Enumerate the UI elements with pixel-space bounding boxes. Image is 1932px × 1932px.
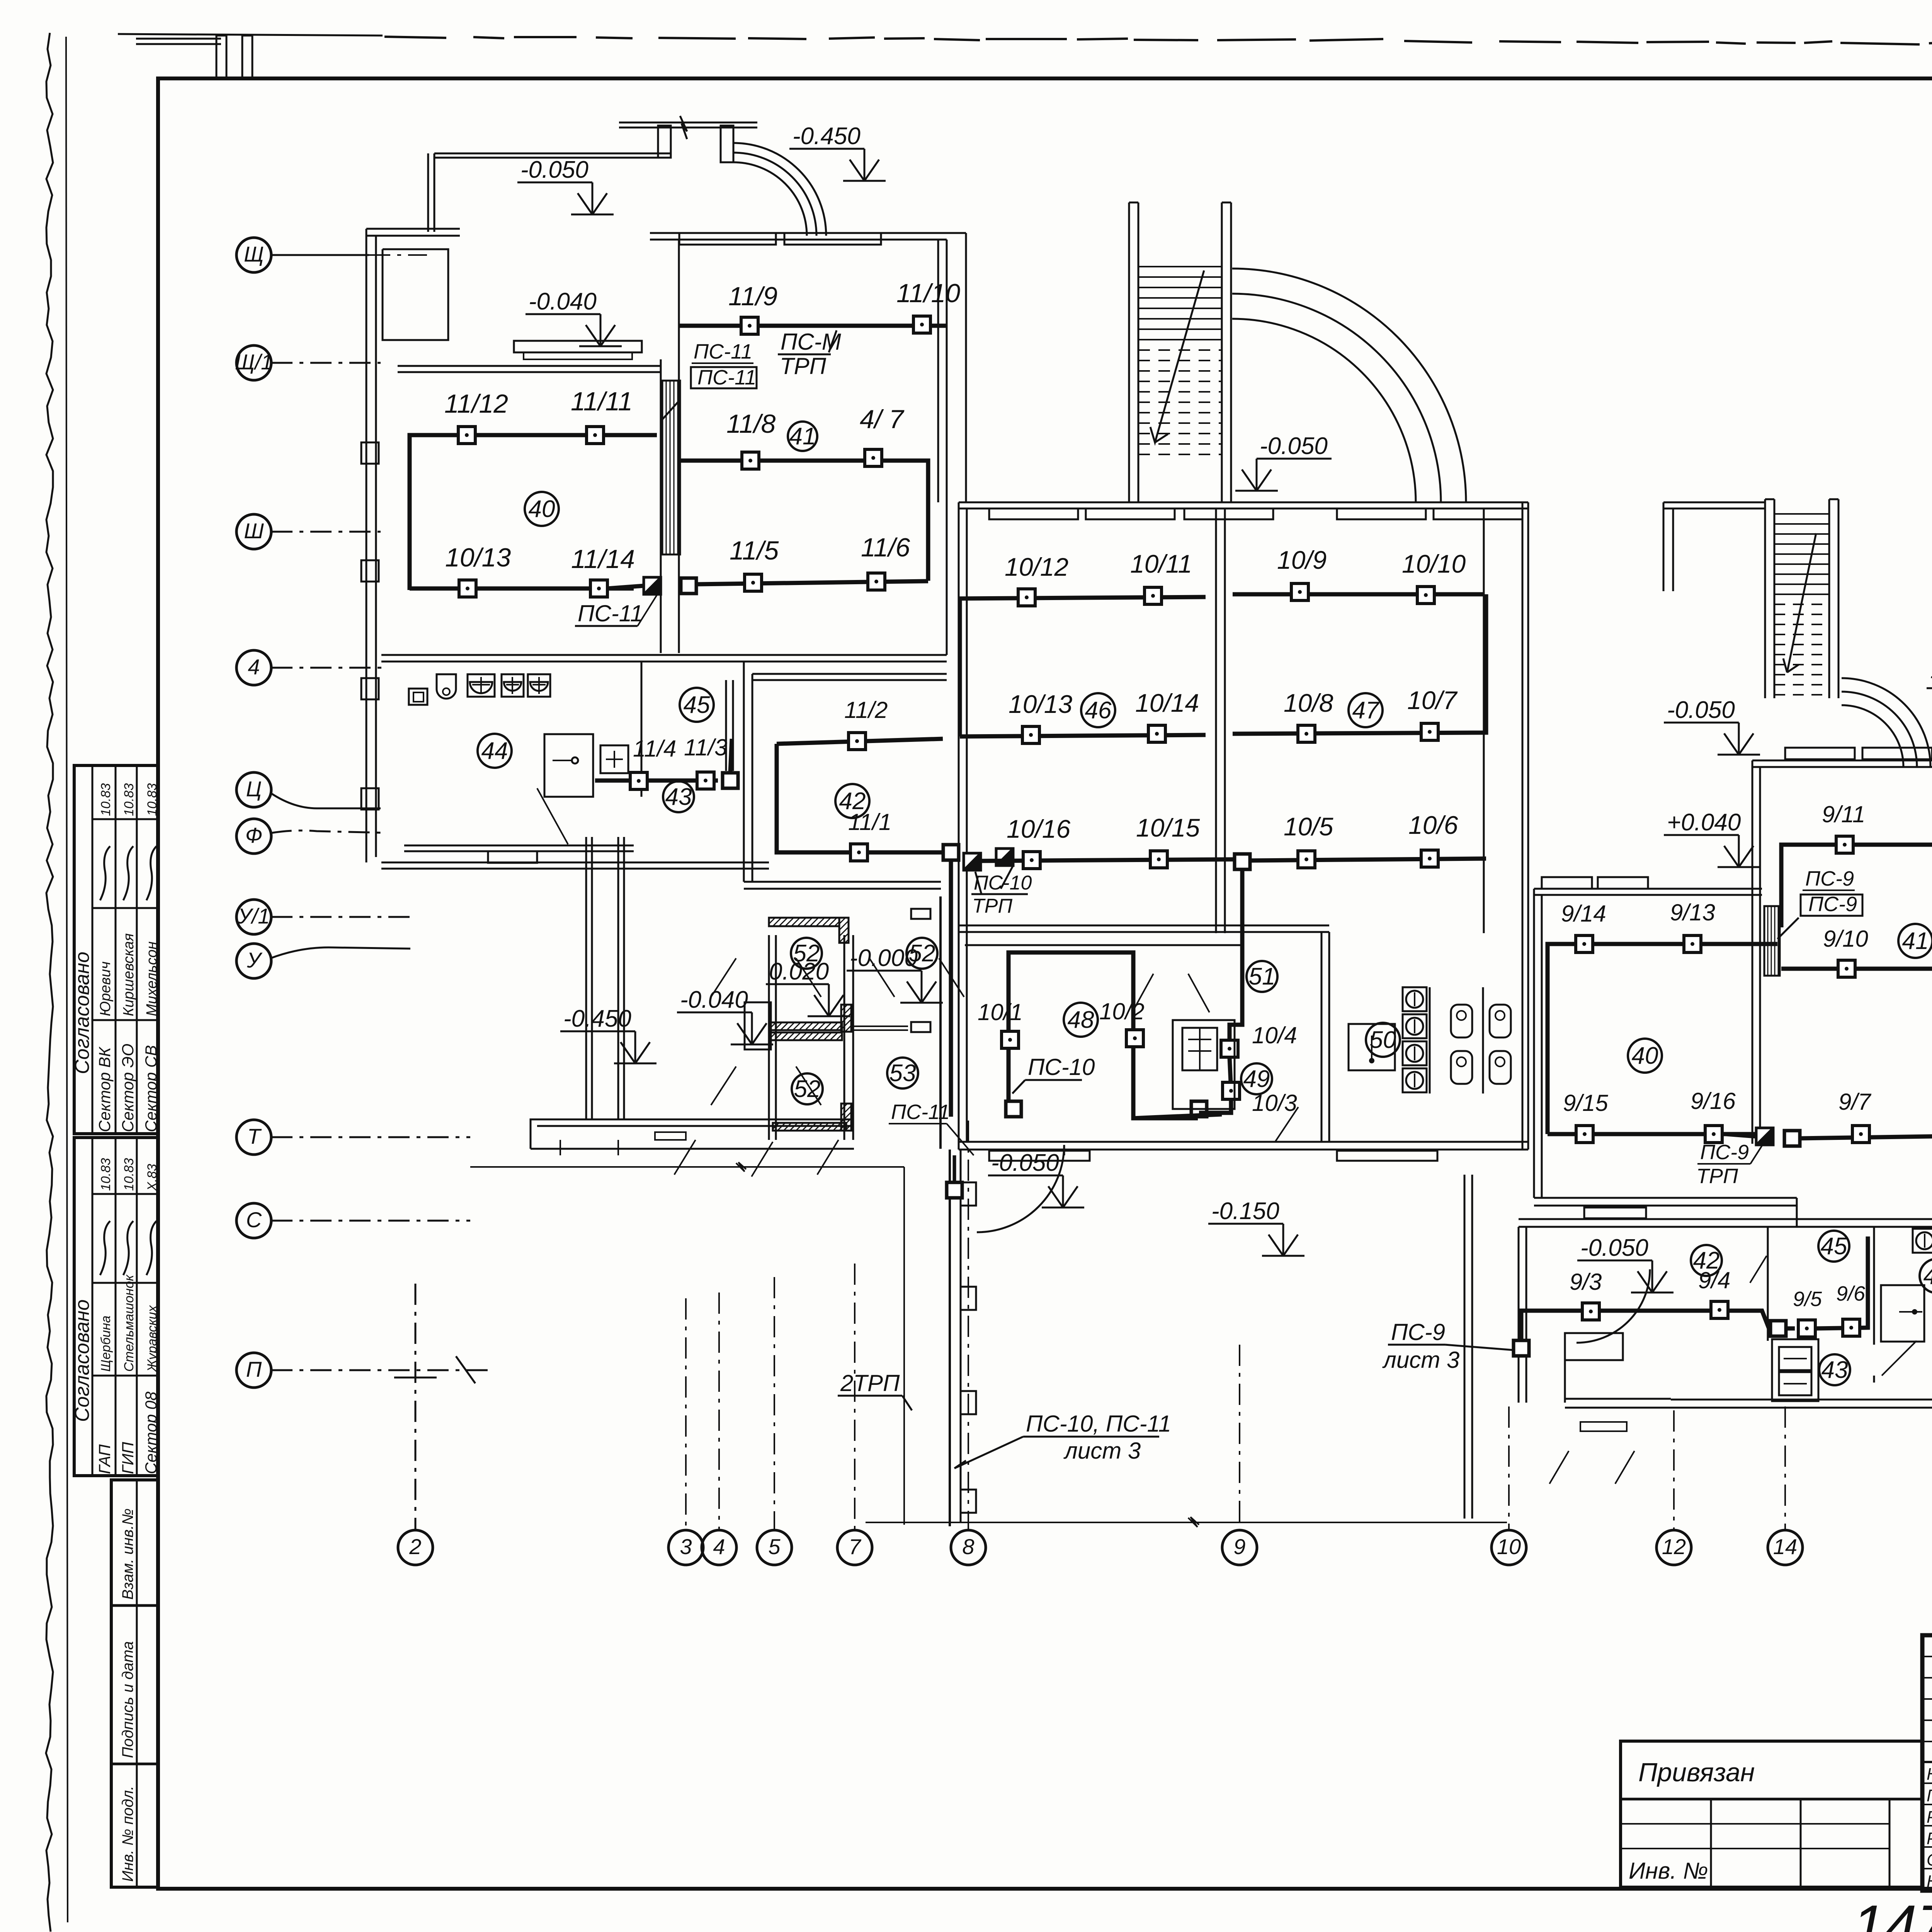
svg-text:7: 7 bbox=[849, 1534, 861, 1559]
svg-text:3: 3 bbox=[680, 1534, 692, 1559]
svg-text:Т: Т bbox=[247, 1124, 262, 1148]
svg-text:11/2: 11/2 bbox=[844, 697, 888, 723]
svg-text:2ТРП: 2ТРП bbox=[840, 1370, 900, 1396]
wing2 left wall bbox=[958, 502, 960, 1150]
svg-text:40: 40 bbox=[529, 496, 555, 522]
hall bottom thin line bbox=[866, 1522, 1507, 1523]
corridor51 + 49 wiring bbox=[1230, 869, 1242, 1049]
svg-text:10/7: 10/7 bbox=[1407, 686, 1458, 714]
svg-text:2: 2 bbox=[409, 1534, 421, 1559]
svg-text:11/1: 11/1 bbox=[848, 809, 891, 835]
wing2 outer top wall bbox=[959, 502, 1528, 503]
svg-text:ПС-9: ПС-9 bbox=[1805, 867, 1854, 890]
room49 cupboard bbox=[1173, 1020, 1235, 1109]
svg-text:53: 53 bbox=[889, 1060, 916, 1087]
svg-text:ТРП: ТРП bbox=[1696, 1165, 1738, 1188]
svg-text:Инв. №: Инв. № bbox=[1629, 1858, 1708, 1884]
corridor walls down bbox=[585, 837, 587, 1119]
svg-text:9/11: 9/11 bbox=[1822, 801, 1865, 827]
svg-text:44: 44 bbox=[481, 738, 508, 764]
wing2 rooms bottom wall bbox=[959, 925, 1329, 927]
svg-text:ГАП: ГАП bbox=[95, 1444, 114, 1474]
wingR entry steps bottom-left bbox=[1565, 1333, 1623, 1360]
svg-text:ПС-10: ПС-10 bbox=[1028, 1054, 1095, 1080]
privyazan box bbox=[1621, 1741, 1922, 1887]
svg-text:9/14: 9/14 bbox=[1561, 901, 1606, 927]
wing1 top-left outer walls bbox=[366, 228, 460, 230]
svg-text:-0.050: -0.050 bbox=[991, 1150, 1059, 1176]
title block bbox=[1922, 1635, 1932, 1891]
svg-text:Щ: Щ bbox=[244, 242, 264, 266]
svg-text:Нач. отд.: Нач. отд. bbox=[1927, 1765, 1932, 1784]
wiring wing2 row2 bbox=[958, 599, 962, 736]
torn paper left edge bbox=[46, 33, 53, 1932]
door arcs wing2 south bbox=[977, 1145, 1064, 1232]
left stamp table 2 bbox=[74, 1138, 158, 1476]
svg-text:9/5: 9/5 bbox=[1793, 1287, 1822, 1311]
svg-text:45: 45 bbox=[684, 692, 710, 718]
wing1 entrance arcs bbox=[733, 143, 826, 236]
svg-text:10.83: 10.83 bbox=[122, 783, 136, 816]
wiring room48 bbox=[1009, 952, 1198, 1118]
svg-text:11/11: 11/11 bbox=[571, 387, 633, 416]
svg-text:Гл.сп.отд.: Гл.сп.отд. bbox=[1927, 1786, 1932, 1805]
svg-text:Михельсон: Михельсон bbox=[144, 941, 160, 1016]
svg-text:10/11: 10/11 bbox=[1130, 549, 1192, 578]
svg-text:10/16: 10/16 bbox=[1007, 815, 1070, 843]
svg-text:ПС-9: ПС-9 bbox=[1808, 893, 1857, 916]
svg-text:Сектор ЭО: Сектор ЭО bbox=[119, 1044, 137, 1132]
hall left wall bbox=[949, 1150, 951, 1526]
room40 top wall + sills bbox=[398, 365, 661, 367]
trp near 42 bbox=[996, 849, 1013, 866]
wiring wing2 row3 bbox=[981, 859, 1234, 861]
svg-text:11/4: 11/4 bbox=[633, 736, 676, 762]
svg-text:ПС-11: ПС-11 bbox=[694, 340, 752, 363]
wing1 canopy roof bbox=[434, 153, 671, 155]
svg-text:10/6: 10/6 bbox=[1408, 811, 1458, 839]
svg-text:10: 10 bbox=[1497, 1534, 1521, 1559]
svg-text:-0.450: -0.450 bbox=[563, 1005, 631, 1032]
svg-text:Согласовано: Согласовано bbox=[71, 952, 94, 1074]
svg-text:ПС-11: ПС-11 bbox=[891, 1100, 950, 1124]
svg-text:10/12: 10/12 bbox=[1005, 553, 1068, 581]
svg-text:49: 49 bbox=[1243, 1066, 1270, 1092]
svg-text:П: П bbox=[246, 1357, 262, 1381]
svg-text:ПС-10, ПС-11: ПС-10, ПС-11 bbox=[1026, 1411, 1171, 1437]
svg-text:-0.040: -0.040 bbox=[529, 288, 597, 315]
wingR room40 walls bbox=[1534, 888, 1762, 890]
svg-text:46: 46 bbox=[1085, 697, 1112, 724]
svg-text:10/13: 10/13 bbox=[445, 543, 511, 572]
room 41 circle bbox=[788, 422, 817, 451]
room 40 circle bbox=[525, 492, 559, 526]
svg-text:-0.050: -0.050 bbox=[1580, 1235, 1648, 1261]
svg-text:14: 14 bbox=[1773, 1534, 1797, 1559]
svg-text:ПС-10: ПС-10 bbox=[974, 872, 1032, 894]
wingR wiring lower bbox=[1521, 1311, 1795, 1343]
left stamp table 1 (soglasovano) bbox=[74, 765, 158, 1134]
svg-text:10/13: 10/13 bbox=[1009, 690, 1072, 718]
wing1 toilets room44 bbox=[404, 845, 634, 847]
room43R cupboard bbox=[1772, 1339, 1818, 1401]
svg-text:ПС-9: ПС-9 bbox=[1700, 1141, 1749, 1164]
svg-text:10.83: 10.83 bbox=[122, 1158, 136, 1191]
wingR fixtures 44 bbox=[1913, 1229, 1932, 1253]
room42 walls bbox=[743, 662, 745, 882]
svg-text:48: 48 bbox=[1068, 1007, 1094, 1033]
svg-text:40: 40 bbox=[1632, 1043, 1658, 1069]
svg-text:-0.450: -0.450 bbox=[1930, 662, 1932, 689]
svg-text:Взам. инв.№: Взам. инв.№ bbox=[119, 1509, 136, 1600]
svg-text:Согласовано: Согласовано bbox=[71, 1299, 94, 1422]
wiring 43/42 bbox=[595, 779, 718, 783]
room50 walls + fixtures bbox=[1321, 932, 1323, 1142]
svg-text:-0.050: -0.050 bbox=[520, 156, 588, 183]
room 50 sink bbox=[1349, 1024, 1395, 1070]
svg-text:У/1: У/1 bbox=[238, 904, 270, 928]
svg-text:43: 43 bbox=[665, 784, 692, 810]
svg-text:Киршевская: Киршевская bbox=[121, 933, 137, 1016]
svg-text:Привязан: Привязан bbox=[1638, 1758, 1755, 1787]
left stamp column 3 (inv no) bbox=[111, 1480, 158, 1887]
svg-text:ТРП: ТРП bbox=[780, 353, 827, 379]
room48 walls bbox=[965, 944, 1242, 946]
svg-text:10/14: 10/14 bbox=[1135, 689, 1199, 717]
svg-text:41: 41 bbox=[789, 423, 816, 450]
svg-text:Рук.сект: Рук.сект bbox=[1927, 1808, 1932, 1827]
svg-text:10/1: 10/1 bbox=[978, 999, 1023, 1025]
wiring room40 bbox=[410, 435, 657, 590]
svg-text:10/15: 10/15 bbox=[1136, 813, 1200, 842]
svg-text:9: 9 bbox=[1233, 1534, 1245, 1559]
stair1 arcs bbox=[1232, 269, 1466, 502]
svg-text:1478- 04: 1478- 04 bbox=[1852, 1893, 1932, 1932]
svg-text:11/14: 11/14 bbox=[571, 544, 635, 574]
svg-text:ГИП: ГИП bbox=[119, 1442, 137, 1474]
wingR bottom outer wall bbox=[1671, 1399, 1932, 1401]
room40/41 bottom wall bbox=[381, 654, 947, 656]
svg-text:10.83: 10.83 bbox=[99, 1158, 113, 1191]
svg-text:9/10: 9/10 bbox=[1823, 926, 1868, 952]
stairwell1 bbox=[1128, 202, 1130, 502]
svg-text:10.83: 10.83 bbox=[99, 783, 113, 816]
svg-text:ПС-11: ПС-11 bbox=[578, 600, 643, 626]
room45 corridor walls bbox=[641, 662, 643, 797]
svg-text:10/8: 10/8 bbox=[1284, 689, 1333, 717]
svg-text:4: 4 bbox=[713, 1534, 725, 1559]
svg-text:ПС-11: ПС-11 bbox=[697, 366, 756, 389]
svg-text:-0.050: -0.050 bbox=[1260, 433, 1328, 459]
svg-text:Ст. инж.: Ст. инж. bbox=[1927, 1850, 1932, 1869]
riser marks near x2470 bbox=[953, 1155, 956, 1182]
svg-text:42: 42 bbox=[1693, 1247, 1720, 1274]
hall right wall bbox=[1464, 1175, 1466, 1519]
svg-text:Инв. № подл.: Инв. № подл. bbox=[119, 1786, 136, 1882]
axis letters left bbox=[236, 238, 271, 272]
svg-text:11/3: 11/3 bbox=[684, 735, 727, 760]
stair2 arcs bbox=[1842, 678, 1930, 767]
doors diag 48/51 bbox=[1132, 974, 1153, 1012]
svg-text:43: 43 bbox=[1821, 1357, 1848, 1383]
top-left fence bbox=[136, 38, 221, 40]
svg-text:Щербина: Щербина bbox=[99, 1316, 113, 1372]
svg-text:11/12: 11/12 bbox=[444, 389, 508, 418]
wing2 south wall bbox=[959, 1141, 1528, 1143]
wingR inner walls lower band bbox=[1767, 1227, 1769, 1341]
room41L outer walls bbox=[650, 232, 966, 234]
svg-text:Ш: Ш bbox=[244, 519, 264, 543]
svg-text:Ф: Ф bbox=[245, 823, 263, 847]
wingR wiring upper bbox=[1781, 845, 1932, 927]
svg-text:Сектор ВК: Сектор ВК bbox=[95, 1046, 114, 1132]
svg-text:Юревич: Юревич bbox=[97, 961, 114, 1016]
svg-text:41: 41 bbox=[1902, 928, 1929, 954]
band walls bottom-left bbox=[531, 1119, 854, 1149]
stair2 gallery bbox=[1663, 502, 1765, 503]
svg-text:Журавских: Журавских bbox=[145, 1305, 160, 1372]
svg-text:ТРП: ТРП bbox=[972, 895, 1012, 917]
svg-text:Щ/1: Щ/1 bbox=[235, 350, 273, 374]
wing2 mid wall 46/47 bbox=[1215, 509, 1217, 933]
svg-text:9/15: 9/15 bbox=[1563, 1090, 1608, 1116]
tambour walls bbox=[768, 935, 770, 1140]
wiring wing2 row1 bbox=[959, 597, 1206, 599]
svg-text:8: 8 bbox=[962, 1534, 974, 1559]
svg-text:4/ 7: 4/ 7 bbox=[860, 405, 905, 434]
svg-text:10.83: 10.83 bbox=[145, 783, 160, 816]
svg-text:-0.050: -0.050 bbox=[1667, 697, 1735, 723]
svg-text:Ц: Ц bbox=[246, 777, 262, 801]
wingR riser hatch bbox=[1764, 906, 1780, 976]
svg-text:С: С bbox=[246, 1207, 262, 1232]
svg-text:11/5: 11/5 bbox=[730, 536, 779, 565]
svg-text:12: 12 bbox=[1662, 1534, 1686, 1559]
stairwell2 bbox=[1764, 499, 1766, 698]
svg-text:-0.040: -0.040 bbox=[680, 986, 748, 1013]
svg-text:Сектор 08: Сектор 08 bbox=[142, 1391, 160, 1474]
svg-text:9/16: 9/16 bbox=[1690, 1088, 1736, 1114]
wingR wiring room40 bbox=[1548, 944, 1777, 1134]
svg-text:лист 3: лист 3 bbox=[1063, 1438, 1141, 1464]
svg-text:47: 47 bbox=[1352, 697, 1380, 724]
svg-text:9/7: 9/7 bbox=[1838, 1089, 1872, 1115]
svg-text:9/13: 9/13 bbox=[1670, 900, 1715, 925]
svg-text:10/5: 10/5 bbox=[1284, 812, 1333, 841]
svg-text:лист 3: лист 3 bbox=[1382, 1347, 1459, 1373]
svg-text:11/10: 11/10 bbox=[896, 279, 960, 308]
svg-text:+0.040: +0.040 bbox=[1667, 809, 1741, 836]
riser wall between 40/41 bbox=[660, 359, 662, 653]
axis numbers bottom bbox=[398, 1530, 433, 1565]
rooms circles lower right wing bbox=[1691, 1245, 1722, 1276]
door diag lower wing right bbox=[1549, 1451, 1569, 1484]
svg-text:9/6: 9/6 bbox=[1836, 1282, 1866, 1305]
svg-text:10/10: 10/10 bbox=[1402, 549, 1466, 578]
svg-text:51: 51 bbox=[1249, 963, 1276, 990]
svg-text:9/3: 9/3 bbox=[1570, 1269, 1602, 1295]
svg-text:52: 52 bbox=[794, 1076, 821, 1102]
svg-text:Н.контр: Н.контр bbox=[1927, 1872, 1932, 1891]
svg-text:11/8: 11/8 bbox=[726, 409, 776, 439]
svg-text:52: 52 bbox=[909, 940, 935, 967]
top scan edge line bbox=[118, 34, 383, 36]
svg-text:11/6: 11/6 bbox=[861, 533, 910, 562]
svg-text:52: 52 bbox=[793, 940, 820, 967]
svg-text:У: У bbox=[247, 948, 263, 972]
wingR lower rooms walls bbox=[1518, 1227, 1520, 1403]
svg-text:Х.83: Х.83 bbox=[145, 1164, 160, 1191]
svg-text:Рук. гр.: Рук. гр. bbox=[1927, 1829, 1932, 1848]
wing2 right wall bbox=[1483, 509, 1485, 933]
svg-text:Сектор СВ: Сектор СВ bbox=[142, 1045, 160, 1132]
wingR room41 outer walls bbox=[1752, 760, 1932, 762]
vestibule inner room bbox=[383, 249, 448, 340]
circles 52/53 bbox=[791, 938, 822, 969]
svg-text:45: 45 bbox=[1821, 1233, 1847, 1260]
svg-text:ПС-9: ПС-9 bbox=[1391, 1319, 1445, 1345]
svg-text:Стельмашонок: Стельмашонок bbox=[122, 1274, 136, 1372]
wingR bottom walls of rooms bbox=[1534, 1197, 1797, 1199]
svg-text:10/9: 10/9 bbox=[1277, 546, 1327, 574]
wing1 left wall pilasters bbox=[361, 442, 379, 464]
svg-text:4: 4 bbox=[248, 655, 260, 679]
svg-text:-0.150: -0.150 bbox=[1211, 1198, 1279, 1225]
svg-text:-0.450: -0.450 bbox=[793, 123, 861, 150]
small step rects bbox=[655, 1132, 686, 1140]
wing1 right wall continuation bbox=[946, 502, 948, 655]
svg-text:11/9: 11/9 bbox=[728, 282, 777, 311]
svg-text:5: 5 bbox=[768, 1534, 781, 1559]
wiring room41L bbox=[679, 324, 947, 328]
svg-text:10/4: 10/4 bbox=[1252, 1022, 1297, 1048]
svg-text:50: 50 bbox=[1370, 1027, 1396, 1053]
thin boundary line y3020 bbox=[470, 1166, 904, 1168]
wingR sink bbox=[1881, 1285, 1924, 1342]
svg-text:Подпись и дата: Подпись и дата bbox=[119, 1641, 136, 1758]
tambour door diagonals bbox=[711, 958, 736, 997]
